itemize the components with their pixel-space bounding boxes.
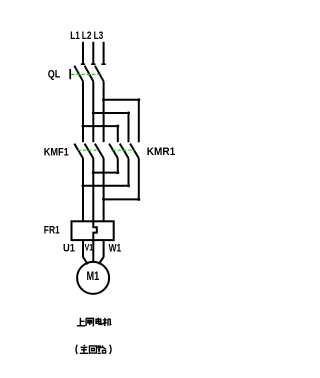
node KMR1 pole1 corner [116,171,119,174]
wire L2 QL to KMF1 [92,81,94,142]
svg-text:L2: L2 [82,30,92,42]
caption line 2: (zhu hui lu) [76,345,111,354]
svg-text:W1: W1 [109,242,122,254]
wire branch L1 to KMR1 pole 1 [83,126,118,142]
svg-text:U1: U1 [63,242,75,254]
wire L1 incoming [82,42,84,64]
wire L1 QL to KMF1 [82,81,84,142]
wire U1 FR1 output [82,240,84,257]
wire KMR1 pole 1 output to node V [93,158,118,172]
char ji [103,318,111,326]
breaker QL pole 1 blade [74,66,83,82]
breaker QL pole 1 contact tick [81,63,85,65]
breaker QL pole 3 contact tick [101,63,105,65]
KMR1 linkage dashed line [113,149,135,151]
QL linkage bar [69,69,71,79]
svg-text:M1: M1 [87,269,100,283]
wire KMR1 pole 2 output to node U [83,158,129,186]
contactor KMR1 pole 3 blade [130,144,139,159]
wire branch L3 to KMR1 pole 3 [104,100,139,142]
wire L2 incoming [92,42,94,64]
node L1 branch [82,125,85,128]
svg-text:FR1: FR1 [44,225,60,237]
svg-text:V1: V1 [85,243,94,253]
node L3 branch [102,98,105,101]
wire KMF1 pole 2 output to FR1 [92,158,94,221]
KMF1 linkage dashed line [78,149,99,151]
paren left [76,345,77,354]
char dian [96,318,102,325]
caption line 1: shang zha dian ji [77,318,111,326]
motor M1 circle [77,262,109,294]
node KMR1 pole2 corner [127,184,130,187]
wire KMF1 pole 3 output to FR1 [103,158,105,221]
node corner branch 1 [116,125,119,128]
breaker QL pole 2 blade [85,66,94,82]
wire KMR1 pole 3 output to node W [104,158,139,199]
breaker QL pole 2 contact tick [91,63,95,65]
FR1 heater element middle phase [93,221,97,240]
wire V1 FR1 output [92,240,94,263]
svg-text:QL: QL [48,68,61,80]
QL linkage dashed line [71,73,99,75]
char lu [98,346,106,354]
wire W1 FR1 output [103,240,105,257]
wire KMF1 pole 1 output to FR1 [82,158,84,221]
wire L3 incoming [103,42,105,64]
node corner branch 3 [137,98,140,101]
wire branch L2 to KMR1 pole 2 [93,113,128,142]
char zha [86,318,93,326]
svg-text:KMR1: KMR1 [147,146,175,158]
thermal relay FR1 box [72,221,114,240]
wire U lead slant [83,257,88,264]
node U junction [82,184,85,187]
node corner branch 2 [127,112,130,115]
contactor KMR1 pole 2 blade [120,144,129,159]
char shang [77,318,85,326]
contactor KMR1 pole 1 blade [109,144,118,159]
node V junction [92,171,95,174]
svg-text:L1: L1 [70,30,80,42]
node L2 branch [92,112,95,115]
wire L3 QL to KMF1 [103,81,105,142]
contactor KMF1 pole 3 blade [95,144,104,159]
svg-text:KMF1: KMF1 [44,146,69,158]
contactor KMF1 pole 1 blade [74,144,83,159]
char zhu [80,345,88,353]
char hui [89,346,96,353]
wire W lead slant [99,257,104,264]
contactor KMF1 pole 2 blade [85,144,94,159]
node KMR1 pole3 corner [137,198,140,201]
breaker QL pole 3 blade [95,66,104,82]
node W junction [102,198,105,201]
paren right [110,345,111,354]
svg-text:L3: L3 [94,30,104,42]
